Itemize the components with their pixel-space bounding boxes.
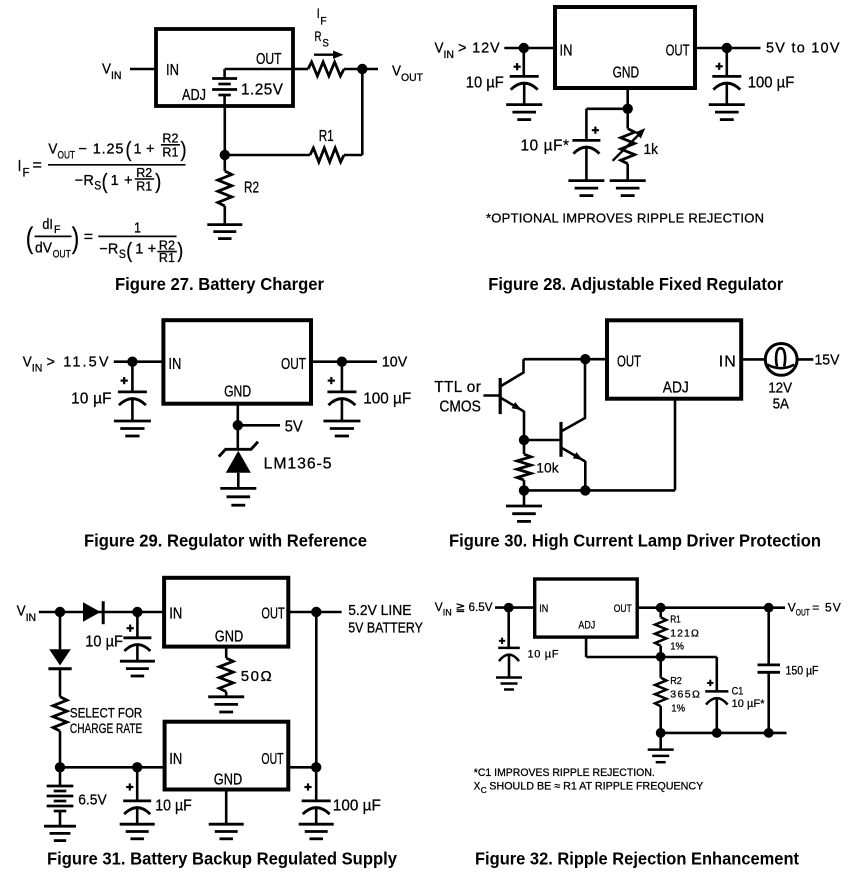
- junction VIN node: [55, 607, 65, 617]
- capacitor 10uF bottom: [123, 767, 151, 824]
- svg-text:OUT: OUT: [281, 356, 306, 373]
- value label 150 uF: [786, 665, 819, 677]
- junction node Q1 emitter: [519, 435, 529, 445]
- svg-text:IN: IN: [166, 62, 179, 79]
- svg-text:365Ω: 365Ω: [670, 689, 700, 701]
- svg-text:OUT: OUT: [796, 607, 810, 617]
- svg-text:OUT: OUT: [256, 51, 282, 68]
- plus polarity mark: [514, 63, 521, 70]
- junction output node: [337, 357, 347, 367]
- value label 10 uF: [85, 634, 123, 651]
- wire vertical 5.2V line: [315, 612, 318, 767]
- svg-text:(: (: [126, 139, 132, 162]
- svg-text:1 +: 1 +: [111, 173, 133, 189]
- svg-text:): ): [181, 139, 187, 162]
- pin label IN: [560, 42, 573, 59]
- svg-text:IN: IN: [169, 606, 182, 623]
- svg-text:10 µF: 10 µF: [466, 75, 504, 92]
- ground below 50 ohm: [208, 697, 244, 712]
- svg-text:150 µF: 150 µF: [786, 665, 819, 677]
- svg-text:OUT: OUT: [401, 72, 423, 84]
- lamp bulb circle: [765, 344, 797, 376]
- svg-text:S: S: [322, 38, 329, 50]
- pin label IN: [169, 606, 182, 623]
- ground below zener: [220, 488, 256, 505]
- plus polarity mark: [716, 63, 723, 70]
- ground below rheostat: [610, 181, 646, 196]
- junction node collector rail: [580, 354, 590, 364]
- svg-text:V: V: [102, 62, 111, 78]
- svg-text:121Ω: 121Ω: [670, 627, 699, 639]
- plus polarity mark: [592, 127, 599, 134]
- svg-text:5.2V LINE: 5.2V LINE: [348, 603, 412, 619]
- regulator U3 box: [163, 320, 311, 404]
- regulator U7 box: [535, 579, 638, 637]
- svg-text:OUT: OUT: [58, 149, 76, 161]
- pin label OUT: [261, 606, 284, 623]
- svg-text:> 12V: > 12V: [458, 41, 500, 57]
- regulator U5 box top: [164, 578, 288, 647]
- wire OUT internal: [225, 68, 293, 71]
- pin label OUT: [614, 603, 632, 615]
- wire ADJ pin down: [674, 399, 677, 491]
- wire node to 5V label: [238, 424, 280, 427]
- node ADJ junction: [220, 150, 230, 160]
- wire VIN node down: [59, 612, 62, 649]
- node label 15V: [815, 352, 840, 369]
- note optional ripple rejection: [486, 210, 764, 225]
- svg-text:IN: IN: [539, 603, 548, 615]
- transistor Q1 collector: [500, 359, 523, 386]
- node label VOUT = 5V: [788, 601, 841, 618]
- svg-text:V: V: [48, 142, 57, 158]
- plus polarity mark: [707, 680, 713, 686]
- svg-text:): ): [72, 222, 80, 255]
- svg-text:): ): [155, 171, 161, 194]
- node VIN label: [23, 354, 109, 374]
- svg-text:10k: 10k: [536, 461, 558, 476]
- pin label OUT: [261, 751, 283, 768]
- label VOUT: [392, 64, 423, 84]
- svg-text:5A: 5A: [773, 395, 789, 412]
- transistor Q1 base bar: [499, 378, 502, 414]
- pin label GND: [224, 383, 251, 400]
- junction GND node: [623, 104, 633, 114]
- resistor 10k: [517, 440, 531, 490]
- value label 100 uF: [333, 798, 381, 815]
- value label 10k: [536, 461, 558, 476]
- wire node to zener: [237, 425, 240, 449]
- junction bottom nodes: [656, 728, 774, 738]
- wire OUT pin to output: [311, 360, 377, 363]
- svg-text:15V: 15V: [815, 352, 840, 369]
- svg-text:6.5V: 6.5V: [78, 792, 107, 809]
- note XC should be R1 at ripple frequency: [474, 781, 704, 795]
- caption Figure 27: [115, 274, 324, 294]
- ground below C3: [568, 181, 604, 196]
- wire node to Q2 base: [524, 439, 561, 442]
- svg-text:SELECT FOR: SELECT FOR: [70, 704, 142, 720]
- svg-text:≧ 6.5V: ≧ 6.5V: [456, 600, 493, 614]
- pin label GND: [215, 629, 244, 646]
- pin label OUT: [256, 51, 282, 68]
- svg-text:IN: IN: [443, 607, 452, 617]
- svg-text:100 µF: 100 µF: [333, 798, 381, 815]
- svg-text:1.25V: 1.25V: [241, 82, 284, 99]
- wire R1 to corner: [344, 154, 362, 157]
- capacitor C-in 10uF: [118, 362, 147, 421]
- svg-text:V: V: [392, 64, 401, 80]
- wire OUT pin to resistor RS: [293, 68, 308, 71]
- svg-text:GND: GND: [215, 629, 244, 646]
- svg-text:S: S: [94, 178, 101, 192]
- resistor R2 365 ohm: [655, 657, 666, 733]
- capacitor C-in 10uF: [510, 48, 539, 105]
- plus polarity mark: [499, 638, 505, 644]
- junction R1 top node: [656, 603, 666, 613]
- value label C1 10uF*: [732, 686, 766, 711]
- wire GND node left to C3: [586, 109, 627, 141]
- ground below bottom box: [209, 824, 244, 839]
- svg-text:OUT: OUT: [666, 42, 690, 59]
- svg-text:10 µF: 10 µF: [85, 634, 123, 651]
- svg-text:ADJ: ADJ: [578, 620, 595, 632]
- junction input node: [519, 43, 529, 53]
- svg-text:R1: R1: [136, 180, 152, 194]
- pin label GND: [214, 772, 242, 789]
- regulator U6 box bottom: [165, 722, 289, 790]
- svg-text:GND: GND: [224, 383, 251, 400]
- svg-text:100 µF: 100 µF: [363, 391, 411, 408]
- resistor R2: [218, 155, 232, 225]
- svg-text:dI: dI: [42, 217, 53, 233]
- svg-text:=: =: [84, 229, 93, 246]
- svg-text:Figure 32. Ripple Rejection En: Figure 32. Ripple Rejection Enhancement: [475, 849, 799, 869]
- value label LM136-5: [264, 455, 332, 472]
- ground below C-in: [506, 105, 542, 120]
- svg-text:F: F: [54, 224, 61, 236]
- junction node Q2 emitter: [580, 485, 590, 495]
- junction input node: [504, 603, 514, 613]
- wire Q1 collector to OUT: [524, 358, 608, 361]
- caption Figure 28: [488, 274, 783, 294]
- svg-text:(: (: [26, 222, 34, 255]
- wire IN pin to lamp: [741, 358, 765, 361]
- svg-text:SHOULD BE ≈ R1 AT RIPPLE FREQU: SHOULD BE ≈ R1 AT RIPPLE FREQUENCY: [489, 781, 704, 793]
- svg-text:V: V: [788, 601, 796, 615]
- pin label IN: [169, 751, 182, 768]
- svg-text:R2: R2: [670, 675, 682, 687]
- svg-text:Figure 27. Battery Charger: Figure 27. Battery Charger: [115, 274, 324, 294]
- wire VIN to IN pin: [39, 611, 164, 614]
- value label 10 uF*: [521, 138, 570, 155]
- pin label ADJ: [578, 620, 595, 632]
- svg-text:IN: IN: [719, 354, 736, 371]
- svg-text:OUT: OUT: [261, 751, 283, 768]
- svg-text:=: =: [33, 157, 42, 174]
- diode D1 series: [83, 601, 103, 624]
- svg-text:OUT: OUT: [261, 606, 284, 623]
- svg-text:*C1 IMPROVES RIPPLE REJECTION.: *C1 IMPROVES RIPPLE REJECTION.: [474, 767, 655, 779]
- node VIN label: [102, 62, 122, 83]
- value label 10 uF: [71, 391, 111, 408]
- transistor Q2 base bar: [559, 422, 562, 457]
- svg-text:I: I: [18, 158, 22, 175]
- svg-text:IN: IN: [26, 612, 37, 624]
- value label 10 uF: [466, 75, 504, 92]
- svg-text:10 µF*: 10 µF*: [732, 698, 766, 710]
- svg-text:IN: IN: [169, 751, 182, 768]
- svg-text:10 µF: 10 µF: [155, 798, 192, 815]
- junction ADJ node: [656, 652, 666, 662]
- node VIN label: [435, 41, 501, 61]
- plus polarity mark: [126, 783, 133, 790]
- wire GND pin down: [225, 647, 228, 658]
- wire GND pin down to node: [237, 404, 240, 426]
- node VIN label: [17, 604, 37, 624]
- value labels R1 121ohm 1%: [670, 614, 699, 653]
- wire D2 to resistor: [59, 669, 62, 697]
- svg-text:Figure 28. Adjustable Fixed Re: Figure 28. Adjustable Fixed Regulator: [488, 274, 783, 294]
- pin label OUT: [617, 354, 641, 371]
- svg-text:R: R: [315, 28, 322, 44]
- figure 27 Battery Charger: [0, 0, 1, 1]
- svg-text:LM136-5: LM136-5: [264, 455, 332, 472]
- note C1 improves ripple rejection: [474, 767, 655, 779]
- node VIN label: [435, 600, 493, 617]
- pin label IN: [168, 356, 181, 373]
- svg-text:CMOS: CMOS: [439, 398, 480, 415]
- zener diode LM136-5 cathode bar: [219, 442, 258, 457]
- plus polarity mark: [127, 625, 134, 632]
- junction node resistor bottom: [519, 485, 529, 495]
- ground below C-out: [709, 105, 745, 120]
- value label 10 uF: [528, 648, 559, 660]
- junction output node: [722, 43, 732, 53]
- label SELECT FOR CHARGE RATE: [70, 704, 142, 736]
- capacitor C1: [705, 657, 728, 733]
- svg-text:): ): [177, 239, 183, 262]
- regulator U1 box: [156, 29, 293, 106]
- ground below bottom 10uF: [120, 824, 155, 839]
- transistor Q2 emitter with arrow: [561, 448, 585, 491]
- svg-text:(: (: [126, 239, 132, 262]
- wire OUT to line: [288, 611, 341, 614]
- svg-text:10 µF*: 10 µF*: [521, 138, 570, 155]
- svg-text:R1: R1: [670, 614, 681, 626]
- junction VOUT node: [764, 603, 774, 613]
- svg-text:5V BATTERY: 5V BATTERY: [348, 621, 423, 637]
- svg-text:12V: 12V: [768, 380, 792, 397]
- svg-text:R2: R2: [162, 132, 178, 146]
- pin label IN: [539, 603, 548, 615]
- svg-text:10 µF: 10 µF: [528, 648, 559, 660]
- label RS: [315, 28, 329, 50]
- svg-text:50Ω: 50Ω: [241, 668, 272, 685]
- caption Figure 32: [475, 849, 799, 869]
- pin label IN: [719, 354, 736, 371]
- resistor RS: [308, 62, 344, 76]
- svg-text:1: 1: [134, 220, 141, 236]
- node label 5.2V LINE 5V BATTERY: [348, 603, 423, 637]
- junction output node bottom: [311, 762, 321, 772]
- svg-text:V: V: [435, 600, 443, 614]
- resistor 50 ohm: [219, 658, 233, 697]
- ground below C-out: [323, 421, 360, 436]
- svg-text:dV: dV: [35, 241, 52, 257]
- diode D2 charge: [48, 649, 71, 668]
- ground below R2: [207, 225, 242, 239]
- svg-text:TTL or: TTL or: [434, 379, 481, 396]
- value label 100 uF: [363, 391, 411, 408]
- svg-text:CHARGE RATE: CHARGE RATE: [70, 720, 142, 736]
- wire GND pin down: [626, 88, 629, 109]
- capacitor C-in 10uF: [498, 608, 520, 678]
- rheostat arrow: [613, 128, 646, 161]
- pin label ADJ: [663, 380, 689, 397]
- svg-text:= 5V: = 5V: [812, 601, 841, 615]
- resistor R1: [310, 148, 344, 162]
- transistor Q1 emitter with arrow: [500, 398, 524, 441]
- svg-text:R1: R1: [162, 145, 178, 159]
- svg-text:S: S: [119, 247, 126, 261]
- svg-text:R1: R1: [319, 128, 334, 145]
- wire zener to ground: [237, 473, 240, 489]
- ground fig30: [506, 490, 542, 521]
- wire ADJ pin down and right: [586, 637, 717, 657]
- svg-text:1k: 1k: [644, 141, 659, 158]
- svg-text:R1: R1: [159, 251, 175, 265]
- node label 5V to 10V: [766, 41, 840, 57]
- label IF: [317, 5, 327, 27]
- svg-text:ADJ: ADJ: [182, 87, 206, 104]
- pin label OUT: [666, 42, 690, 59]
- value label 10 uF: [155, 798, 192, 815]
- svg-text:10 µF: 10 µF: [71, 391, 111, 408]
- input label TTL or CMOS: [434, 379, 481, 415]
- svg-text:100 µF: 100 µF: [748, 75, 795, 92]
- svg-text:C: C: [481, 785, 487, 795]
- wire node to R1: [225, 154, 310, 157]
- plus polarity mark: [328, 377, 335, 384]
- battery 1.25V internal reference: [212, 69, 237, 106]
- node 5V junction: [233, 420, 243, 430]
- figure 32 Ripple Rejection Enhancement: [0, 0, 1, 1]
- value label 1.25V: [241, 82, 284, 99]
- node label 10V: [382, 354, 408, 370]
- wire OUT pin to output: [695, 47, 761, 50]
- rheostat 1k: [621, 109, 635, 181]
- regulator U2 box: [555, 7, 695, 88]
- wire VIN to IN pin: [114, 360, 164, 363]
- pin label OUT: [281, 356, 306, 373]
- svg-text:Figure 30. High Current Lamp D: Figure 30. High Current Lamp Driver Prot…: [449, 531, 821, 551]
- caption Figure 29: [84, 531, 367, 551]
- wire bottom rail to IN: [60, 766, 165, 769]
- svg-text:−R: −R: [75, 173, 94, 189]
- svg-text:1 +: 1 +: [134, 142, 155, 158]
- svg-text:V: V: [23, 354, 32, 370]
- ground below 100uF: [299, 824, 334, 839]
- plus polarity mark: [304, 783, 311, 790]
- zener diode anode triangle: [226, 451, 251, 473]
- ground below C-in: [114, 421, 151, 436]
- label R1: [319, 128, 334, 145]
- resistor R1 121 ohm: [655, 608, 666, 657]
- capacitor C-out 100uF: [327, 362, 356, 421]
- plus polarity mark: [121, 377, 128, 384]
- svg-text:*OPTIONAL IMPROVES RIPPLE REJE: *OPTIONAL IMPROVES RIPPLE REJECTION: [486, 210, 764, 225]
- wire OUT pin to VOUT: [637, 606, 785, 609]
- svg-text:GND: GND: [214, 772, 242, 789]
- transistor Q2 collector: [561, 359, 585, 431]
- svg-text:−R: −R: [99, 242, 118, 258]
- value label 6.5V: [78, 792, 107, 809]
- value labels R2 365ohm 1%: [670, 675, 700, 715]
- svg-text:IN: IN: [444, 49, 455, 61]
- svg-text:R2: R2: [244, 180, 259, 197]
- figure 31 Battery Backup Regulated Supply: [0, 0, 1, 1]
- wire bottom rail to ADJ: [524, 489, 675, 492]
- svg-text:GND: GND: [613, 64, 640, 81]
- caption Figure 31: [47, 849, 397, 869]
- battery 6.5V: [47, 767, 74, 826]
- svg-text:Figure 29. Regulator with Refe: Figure 29. Regulator with Reference: [84, 531, 367, 551]
- svg-text:V: V: [17, 604, 26, 620]
- value label 1k: [644, 141, 659, 158]
- junction output node: [311, 607, 321, 617]
- svg-text:ADJ: ADJ: [663, 380, 689, 397]
- svg-text:1 +: 1 +: [135, 242, 156, 258]
- wire VIN to IN pin: [495, 606, 535, 609]
- junction node bottom 10uF: [132, 762, 142, 772]
- svg-text:IN: IN: [111, 70, 122, 82]
- svg-text:F: F: [320, 15, 327, 27]
- svg-text:Figure 31. Battery Backup Regu: Figure 31. Battery Backup Regulated Supp…: [47, 849, 397, 869]
- label R2: [244, 180, 259, 197]
- pin label ADJ: [182, 87, 206, 104]
- figure 28 Adjustable Fixed Regulator: [0, 0, 1, 1]
- node VOUT junction: [357, 64, 367, 74]
- junction node after D1: [132, 607, 142, 617]
- svg-text:OUT: OUT: [614, 603, 632, 615]
- resistor select for charge rate: [53, 697, 67, 768]
- equation dIF/dVOUT formula: [26, 217, 184, 265]
- svg-text:R2: R2: [136, 166, 152, 180]
- wire bottom rail: [661, 732, 787, 735]
- svg-text:10V: 10V: [382, 354, 408, 370]
- svg-text:IN: IN: [560, 42, 573, 59]
- equation IF formula: [18, 132, 187, 194]
- ground below battery: [44, 826, 76, 840]
- svg-text:C1: C1: [732, 686, 744, 698]
- ground below C-in: [496, 678, 522, 690]
- svg-text:5V: 5V: [285, 419, 304, 436]
- lamp filament: [767, 348, 794, 368]
- capacitor 150uF: [758, 608, 781, 733]
- capacitor C-out 100uF: [712, 48, 741, 105]
- junction battery node: [55, 762, 65, 772]
- regulator U4 box: [607, 320, 741, 398]
- node label 5V: [285, 419, 304, 436]
- lamp rating label 12V 5A: [768, 380, 792, 413]
- value label 50 ohm: [241, 668, 272, 685]
- ground below top 10uF: [120, 661, 155, 676]
- svg-text:IN: IN: [32, 363, 43, 375]
- wire RS to VOUT node: [344, 68, 378, 71]
- value label 100 uF: [748, 75, 795, 92]
- wire VIN to IN pin: [504, 47, 555, 50]
